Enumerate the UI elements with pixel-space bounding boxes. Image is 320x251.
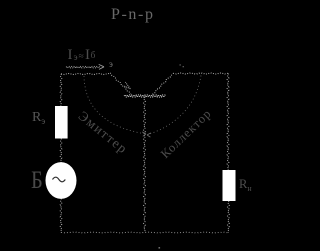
resistor Rn body — [223, 170, 236, 201]
current direction arrow under label — [66, 67, 100, 68]
right arc: collector current path — [147, 76, 201, 136]
label Ie = Ib — [68, 47, 73, 64]
node k mark — [180, 64, 181, 65]
rotated label emitter — [75, 108, 131, 158]
wire top-left (emitter supply) — [61, 74, 110, 75]
transistor base bar — [124, 95, 166, 97]
wire base lead — [144, 97, 146, 233]
stray dot — [159, 247, 161, 249]
right arc arrowhead — [147, 133, 151, 137]
wire right vertical lower — [228, 201, 230, 233]
AC source circle — [46, 162, 77, 199]
transistor collector lead — [153, 74, 174, 95]
resistor Re body — [55, 106, 68, 139]
node e mark — [109, 59, 113, 69]
wire left vertical middle — [60, 139, 62, 163]
wire left vertical lower — [60, 199, 62, 233]
label Rn — [239, 177, 252, 193]
wire bottom — [61, 231, 228, 234]
wire top-right (collector supply) — [173, 73, 228, 74]
label Re — [32, 110, 45, 126]
wire right vertical upper — [227, 74, 229, 171]
transistor emitter lead — [110, 73, 131, 94]
rotated label collector — [158, 106, 215, 162]
label B (battery/source) — [31, 167, 43, 195]
left arc arrowhead — [142, 132, 146, 136]
left arc: emitter current path — [84, 76, 146, 134]
AC source sine symbol — [53, 177, 66, 182]
title P-n-p — [111, 6, 155, 24]
wire left vertical upper — [60, 74, 62, 106]
transistor emitter arrow (PNP, pointing to base) — [124, 82, 131, 89]
